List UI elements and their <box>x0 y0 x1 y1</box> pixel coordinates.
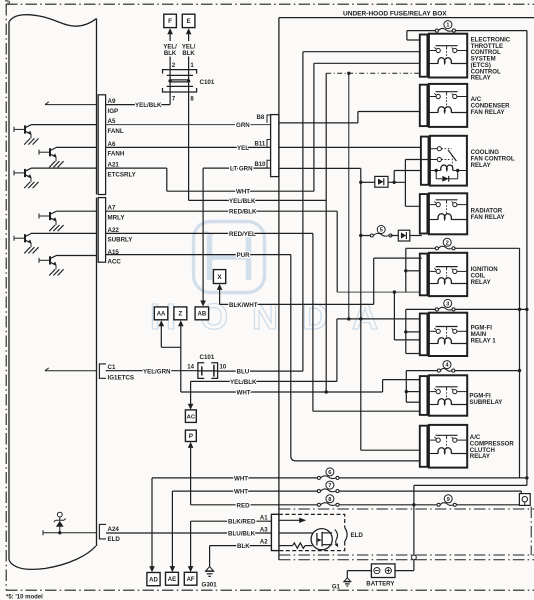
svg-text:YEL/BLK: YEL/BLK <box>230 379 257 386</box>
svg-text:RED/BLK: RED/BLK <box>229 209 257 216</box>
relay PGM-FI subrelay coil <box>438 399 451 405</box>
dash-dot branch vertical (x=348.8) <box>348 73 350 319</box>
ground (transistor emitter) <box>49 161 55 167</box>
svg-text:MRLY: MRLY <box>108 214 126 221</box>
Honda watermark badge <box>194 222 265 293</box>
relay ETCS control connector bar <box>420 35 428 77</box>
PCM pin A24 bracket <box>99 524 106 539</box>
wire collector to pin <box>56 255 97 257</box>
wire BLU to ETCS relay switch net <box>218 370 303 372</box>
battery negative wire <box>347 570 371 572</box>
ground (transistor emitter) <box>24 182 30 188</box>
junction y=318.9 link line <box>337 318 420 320</box>
svg-text:AF: AF <box>187 577 195 583</box>
wire Z down to WHT <box>180 326 182 392</box>
svg-text:7: 7 <box>328 483 331 489</box>
relay PGM-FI main 1 switch <box>436 326 458 328</box>
svg-text:AB: AB <box>198 312 207 318</box>
svg-text:RELAY: RELAY <box>471 279 491 286</box>
relay radiator fan switch <box>436 199 458 201</box>
svg-text:A9: A9 <box>108 98 116 105</box>
wire WHT to AD / fuse 6 row <box>152 477 319 479</box>
svg-text:B11: B11 <box>255 141 266 147</box>
svg-text:SUBRLY: SUBRLY <box>108 237 134 244</box>
svg-text:RED: RED <box>237 502 251 509</box>
dash-dot *5 wire to ETCS relay (y=73.3) <box>326 72 420 74</box>
terminal connector at right <box>519 494 530 506</box>
connector E <box>182 14 195 27</box>
svg-text:ELD: ELD <box>351 532 364 539</box>
relay ETCS control coil <box>438 58 451 64</box>
arrow into AF <box>188 566 194 572</box>
zener diode at A24 ELD input <box>43 532 97 534</box>
ground G301 <box>206 567 214 571</box>
wire cooling relay contact to radiator relay switch <box>405 159 430 161</box>
ground (transistor emitter) <box>24 138 30 144</box>
ELD FET <box>311 529 332 550</box>
svg-text:G301: G301 <box>202 581 218 588</box>
wire YEL/BLK from C101 pin 8 <box>189 199 327 201</box>
arrow into X <box>217 284 223 290</box>
connector B (B8/B11/B10) <box>271 115 279 177</box>
svg-text:BLK: BLK <box>164 51 177 57</box>
connector AC <box>185 410 196 423</box>
arrow into F <box>167 28 173 34</box>
fuse 2 row <box>406 247 437 249</box>
ELD A1 wire and arrow <box>279 519 300 521</box>
svg-text:YEL/: YEL/ <box>182 44 196 50</box>
node C1 internal lead with hook <box>45 370 97 372</box>
connector P <box>185 430 196 441</box>
transistor driver (base lead) <box>14 172 25 174</box>
arrow into E <box>186 28 192 34</box>
wire through C101 to BLU <box>198 370 218 372</box>
svg-text:A1: A1 <box>260 515 268 521</box>
arrow into AA <box>159 320 165 326</box>
relay PGM-FI main 1 body <box>429 313 467 356</box>
fuse/relay box dividers (dash-dot) <box>279 508 534 510</box>
svg-text:HONDA: HONDA <box>150 296 402 337</box>
svg-text:BLK: BLK <box>237 543 250 550</box>
svg-text:WHT: WHT <box>236 189 250 196</box>
relay cooling fan control body <box>430 136 467 186</box>
svg-text:P: P <box>189 433 194 440</box>
fuse 4 row <box>406 370 439 372</box>
svg-text:B8: B8 <box>257 115 265 121</box>
relay A/C condenser fan connector bar <box>420 85 428 126</box>
transistor driver (base lead) <box>14 128 25 130</box>
connector C101 (top) <box>163 70 197 74</box>
arrow into AE <box>170 566 176 572</box>
relay cooling fan control suppression diode <box>435 171 437 179</box>
test point circle above zener <box>57 512 62 517</box>
relay radiator fan coil <box>438 214 451 220</box>
svg-text:ETCSRLY: ETCSRLY <box>108 171 137 178</box>
relay PGM-FI subrelay switch <box>436 386 458 388</box>
svg-text:E: E <box>186 18 191 25</box>
svg-text:RELAY: RELAY <box>470 453 490 460</box>
svg-text:A7: A7 <box>108 205 116 212</box>
svg-text:*5: '10 model: *5: '10 model <box>6 595 43 600</box>
svg-text:FAN RELAY: FAN RELAY <box>471 109 505 116</box>
svg-text:IG1ETCS: IG1ETCS <box>108 375 134 382</box>
connector X <box>213 270 225 284</box>
svg-text:IGP: IGP <box>108 108 119 115</box>
relay cooling fan control blade <box>448 150 456 161</box>
connector AD <box>147 573 160 586</box>
svg-text:RELAY: RELAY <box>471 162 491 169</box>
wire B10 branch to diode/fuse 5 feed <box>279 167 361 169</box>
relay A/C condenser fan body <box>429 84 467 127</box>
svg-text:C101: C101 <box>200 354 215 361</box>
relay ETCS control switch <box>436 45 458 47</box>
svg-text:SUBRELAY: SUBRELAY <box>469 399 502 406</box>
wire WHT (ETCS relay coil) <box>167 190 314 192</box>
wire collector to pin <box>31 232 97 234</box>
wire YEL/BLK to AC <box>191 380 337 382</box>
wire PUR A15-ACC <box>106 254 291 256</box>
svg-text:ELD: ELD <box>108 536 121 543</box>
battery positive wire <box>395 570 414 572</box>
connector AF <box>184 572 197 585</box>
svg-text:YEL/BLK: YEL/BLK <box>135 102 162 109</box>
ground G1 <box>344 578 350 582</box>
right bus vertical <box>526 31 528 478</box>
fuse/relay box left border <box>278 18 280 560</box>
wire A21-ETCSRLY to WHT net <box>106 167 167 169</box>
diode D1 <box>375 176 388 187</box>
svg-text:A21: A21 <box>108 162 120 169</box>
relay A/C compressor clutch body <box>429 425 467 468</box>
page border (dash-dot) <box>6 3 534 5</box>
svg-text:RELAY 1: RELAY 1 <box>471 338 497 345</box>
transistor driver (base lead) <box>39 151 50 153</box>
wire D2 to radiator fan relay <box>410 235 422 237</box>
wire WHT to AE / fuse 7 row <box>172 490 319 492</box>
svg-text:BATTERY: BATTERY <box>366 580 394 587</box>
wire YEL/BLK A9-IGP to C101 pin 7 <box>106 104 171 106</box>
svg-text:*5: *5 <box>5 0 10 6</box>
wire B11 to cooling fan control relay switch <box>279 146 437 148</box>
wire D1 to cooling fan relay coil <box>388 181 405 183</box>
wire F to C101 pin 2/7 <box>169 57 171 105</box>
ELD A2 wire with resistor <box>279 545 293 547</box>
svg-text:A5: A5 <box>108 118 116 125</box>
relay ignition coil coil <box>438 278 451 284</box>
fuse 3 row <box>406 308 437 310</box>
svg-text:AD: AD <box>149 577 158 583</box>
svg-text:GRN: GRN <box>236 122 250 129</box>
svg-text:YEL/: YEL/ <box>163 44 177 50</box>
wire collector to pin <box>31 167 97 169</box>
ELD connector bar <box>271 514 279 550</box>
node A9 internal lead with hook <box>45 104 97 106</box>
wire WHT AA/Z to PGM-FI subrelay <box>181 391 383 393</box>
relay ETCS control body <box>429 34 467 78</box>
connector AB <box>195 307 209 320</box>
ground (transistor emitter) <box>49 269 55 275</box>
svg-text:RELAY: RELAY <box>471 75 491 82</box>
relay A/C condenser fan switch <box>436 91 458 93</box>
wire collector to pin <box>56 146 97 148</box>
arrow into Z <box>178 320 184 326</box>
relay PGM-FI main 1 coil <box>438 338 451 344</box>
net E/AA-Z vertical (x=326.2) <box>325 73 327 392</box>
arrow into AD <box>149 566 155 572</box>
wire RED/YEL A22-SUBRLY <box>106 232 313 234</box>
wire LT GRN B10 to AB <box>203 167 271 169</box>
relay cooling fan control contacts <box>437 147 441 151</box>
wire collector to pin <box>31 124 97 126</box>
svg-text:BLU: BLU <box>237 369 250 376</box>
wire to diode D1 <box>361 181 375 183</box>
svg-text:F: F <box>168 18 172 25</box>
wire collector to pin <box>56 210 97 212</box>
relay PGM-FI main 1 connector bar <box>420 314 428 356</box>
svg-text:AC: AC <box>187 414 196 420</box>
wire BLK/RED ELD A1 <box>191 520 272 522</box>
arrow into AB <box>200 301 206 307</box>
wire MRLY to ignition coil relay / PGM-FI main relay coils <box>337 291 422 293</box>
svg-text:AE: AE <box>168 577 176 583</box>
svg-text:WHT: WHT <box>234 489 248 496</box>
svg-text:FANL: FANL <box>108 128 124 135</box>
svg-text:BLK: BLK <box>182 51 195 57</box>
relay A/C compressor clutch coil <box>438 448 451 454</box>
battery feed vertical <box>413 485 415 570</box>
ELD adjustment arrow <box>335 530 338 546</box>
arrow into P <box>188 442 194 448</box>
svg-text:FANH: FANH <box>108 151 125 158</box>
svg-text:ACC: ACC <box>108 259 122 266</box>
wire RED / fuse 8 row <box>191 504 319 506</box>
pin B8 <box>267 115 271 123</box>
svg-text:Z: Z <box>178 311 182 318</box>
arrow into AC <box>188 404 194 410</box>
wire AA join Z <box>160 326 162 347</box>
connector AE <box>166 572 179 585</box>
wire YEL/GRN C1 to C101 pin 14 <box>106 370 198 372</box>
connector AA <box>154 307 168 320</box>
svg-text:BLK/WHT: BLK/WHT <box>229 302 258 309</box>
fuse/relay box right border segment (dash-dot) <box>530 507 532 556</box>
PCM/ECM module outline <box>9 15 97 560</box>
svg-text:X: X <box>217 274 222 281</box>
bus wire: ETCS relay switch to BLU (x=302.9) <box>302 52 304 371</box>
relay PGM-FI subrelay body <box>429 375 467 415</box>
wire E to C101 pin 1/8 <box>188 57 190 201</box>
connector Z <box>174 307 187 320</box>
wire B8 to A/C condenser fan relay coil <box>279 122 358 124</box>
relay ETCS pin feed from fuse 1 <box>406 31 408 40</box>
relay ignition coil switch <box>436 266 458 268</box>
svg-text:BLU/BLK: BLU/BLK <box>228 531 256 538</box>
pin B10 <box>267 160 271 168</box>
svg-text:C101: C101 <box>200 79 215 86</box>
ELD A3 wire (gate) <box>279 532 317 534</box>
long vertical B10 net (x=360.8) <box>360 168 362 450</box>
svg-text:AA: AA <box>157 312 166 318</box>
vertical link fuse2 row to fuse3 row (x=519.5) <box>519 248 521 478</box>
PCM pin C1 bracket <box>99 364 106 378</box>
svg-text:G1: G1 <box>332 584 341 590</box>
svg-text:WHT: WHT <box>237 390 251 397</box>
relay ignition coil body <box>429 253 467 296</box>
svg-text:A24: A24 <box>108 526 120 533</box>
svg-text:B10: B10 <box>255 162 267 168</box>
fuse 9 <box>437 503 440 506</box>
pin B11 <box>267 140 271 148</box>
wire YEL A6-FANH to B11 <box>106 146 271 148</box>
svg-text:2: 2 <box>446 240 449 246</box>
relay A/C compressor clutch connector bar <box>420 426 428 467</box>
svg-text:RED/YEL: RED/YEL <box>229 231 256 238</box>
svg-text:A22: A22 <box>108 227 120 234</box>
svg-text:YEL/BLK: YEL/BLK <box>229 198 256 205</box>
relay cooling fan control coil <box>441 165 453 171</box>
svg-text:A2: A2 <box>260 540 268 546</box>
fuse/relay box top border <box>279 17 534 19</box>
connector F <box>164 14 177 27</box>
fuse 5 <box>361 235 372 237</box>
PCM connector A (pins A7-A15) <box>98 198 105 263</box>
ground (transistor emitter) <box>49 225 55 231</box>
svg-text:FAN RELAY: FAN RELAY <box>471 214 505 221</box>
wire RED/BLK A7-MRLY <box>106 210 338 212</box>
svg-text:WHT: WHT <box>234 475 248 482</box>
svg-text:YEL: YEL <box>237 145 249 152</box>
ELD unit dashed box <box>279 514 345 550</box>
wire BLK/WHT X to ignition coil relay <box>219 290 221 305</box>
wire BLK ELD A2 to G301 <box>210 545 272 547</box>
firewall pass-through circle <box>412 555 417 560</box>
relay A/C condenser fan coil <box>438 107 451 113</box>
diode D2 <box>391 235 399 237</box>
wire P to RED/fuse8 row <box>190 448 192 505</box>
relay A/C compressor clutch switch <box>436 434 458 436</box>
relay PGM-FI subrelay connector bar <box>420 376 428 415</box>
svg-text:10: 10 <box>220 364 227 370</box>
transistor driver (base lead) <box>14 237 25 239</box>
transistor driver (base lead) <box>39 215 50 217</box>
PCM connector A (pins A9-A21) <box>98 95 105 195</box>
svg-text:LT GRN: LT GRN <box>230 166 253 173</box>
relay ignition coil connector bar <box>420 254 428 296</box>
relay radiator fan body <box>429 193 467 234</box>
svg-text:A3: A3 <box>260 527 268 533</box>
svg-text:UNDER-HOOD FUSE/RELAY BOX: UNDER-HOOD FUSE/RELAY BOX <box>343 11 447 18</box>
relay radiator fan connector bar <box>420 194 428 233</box>
svg-text:PUR: PUR <box>237 252 251 259</box>
wire BLU/BLK A24 to ELD A3 <box>106 532 271 534</box>
relay cooling fan control connector bar <box>421 137 429 185</box>
svg-text:14: 14 <box>187 364 194 370</box>
svg-text:BLK/RED: BLK/RED <box>228 519 256 526</box>
PCM right edge <box>96 19 98 195</box>
wire GRN A5-FANL to B8 <box>106 124 271 126</box>
battery <box>371 564 395 578</box>
svg-text:YEL/GRN: YEL/GRN <box>143 368 171 375</box>
ground (transistor emitter) <box>24 247 30 253</box>
transistor driver (base lead) <box>39 259 50 261</box>
fuse 1 and top bus <box>407 30 437 32</box>
svg-text:A6: A6 <box>108 141 116 148</box>
